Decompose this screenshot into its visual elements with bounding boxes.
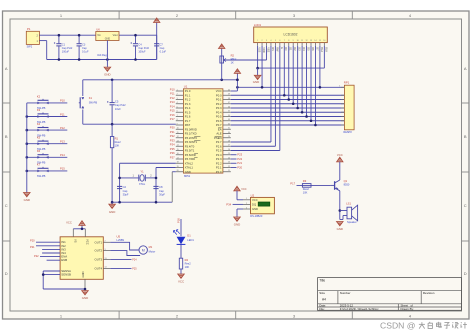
svg-text:VCC: VCC: [337, 153, 343, 157]
svg-text:K6: K6: [37, 149, 41, 153]
svg-text:100uF: 100uF: [138, 50, 146, 54]
svg-text:P0.0: P0.0: [216, 93, 222, 97]
svg-text:P30: P30: [170, 126, 175, 130]
svg-text:26: 26: [228, 149, 230, 151]
svg-text:P23: P23: [237, 153, 242, 157]
svg-text:30: 30: [228, 132, 230, 134]
svg-text:4: 4: [177, 102, 178, 104]
svg-text:2: 2: [246, 203, 247, 205]
svg-text:P14: P14: [60, 153, 65, 157]
svg-text:10K: 10K: [303, 191, 308, 195]
svg-text:OUT3: OUT3: [95, 258, 103, 262]
svg-text:Cap: Cap: [82, 46, 87, 50]
svg-text:9: 9: [177, 123, 178, 125]
svg-text:DQ: DQ: [252, 203, 256, 207]
svg-text:Res2: Res2: [115, 140, 122, 144]
svg-text:P13: P13: [170, 100, 175, 104]
svg-text:13: 13: [310, 40, 312, 42]
svg-text:D1: D1: [187, 234, 191, 238]
svg-text:VCC: VCC: [178, 279, 184, 283]
svg-text:C1: C1: [62, 43, 66, 47]
svg-text:RPot: RPot: [231, 57, 237, 61]
svg-text:P3.6/WR: P3.6/WR: [185, 153, 196, 157]
svg-text:34: 34: [228, 115, 230, 117]
svg-text:OUT2: OUT2: [95, 249, 103, 253]
svg-text:F:\2i-2:2023\..\Sheet1.SchDoc: F:\2i-2:2023\..\Sheet1.SchDoc: [340, 307, 379, 311]
svg-text:P36: P36: [170, 151, 175, 155]
svg-text:K2: K2: [37, 95, 41, 99]
svg-text:D: D: [5, 271, 8, 276]
svg-text:P20: P20: [30, 238, 35, 242]
svg-text:P2.1: P2.1: [216, 166, 222, 170]
svg-text:P20: P20: [237, 165, 242, 169]
svg-text:12: 12: [305, 40, 307, 42]
svg-text:CSDN @: CSDN @: [380, 320, 415, 330]
svg-text:10K: 10K: [185, 265, 190, 269]
svg-text:SIP2: SIP2: [27, 45, 33, 49]
svg-text:Drawn By:: Drawn By:: [401, 307, 415, 311]
svg-text:18: 18: [177, 162, 179, 164]
svg-text:7: 7: [177, 115, 178, 117]
svg-text:Revision: Revision: [423, 291, 435, 295]
svg-text:8550: 8550: [344, 183, 350, 187]
svg-text:P34: P34: [170, 143, 175, 147]
svg-text:C7: C7: [160, 43, 164, 47]
svg-text:8051: 8051: [184, 174, 191, 178]
svg-text:GND: GND: [104, 72, 110, 76]
svg-text:P3.1/TXD: P3.1/TXD: [185, 132, 197, 136]
svg-text:P2.4: P2.4: [216, 153, 222, 157]
svg-text:OUT4: OUT4: [95, 266, 103, 270]
svg-text:RST: RST: [185, 123, 191, 127]
svg-text:36: 36: [228, 106, 230, 108]
svg-text:13: 13: [105, 258, 107, 260]
svg-text:Res2: Res2: [303, 187, 310, 191]
svg-text:37: 37: [228, 102, 230, 104]
svg-text:Res2: Res2: [185, 261, 192, 265]
svg-text:15: 15: [177, 149, 179, 151]
svg-text:14: 14: [314, 40, 316, 42]
svg-text:LS1: LS1: [346, 202, 351, 206]
svg-text:R3: R3: [303, 179, 307, 183]
svg-text:P1.7: P1.7: [185, 119, 191, 123]
svg-text:P10: P10: [170, 87, 175, 91]
svg-text:P12: P12: [170, 96, 175, 100]
svg-text:P11: P11: [170, 92, 175, 96]
svg-text:12: 12: [177, 136, 179, 138]
svg-text:Size: Size: [319, 291, 325, 295]
svg-text:P21: P21: [237, 161, 242, 165]
svg-text:19: 19: [177, 166, 179, 168]
svg-text:39: 39: [228, 94, 230, 96]
svg-text:M1: M1: [149, 245, 153, 249]
svg-text:P0.6: P0.6: [216, 119, 222, 123]
svg-text:GND: GND: [81, 271, 85, 277]
svg-text:VCC: VCC: [66, 220, 72, 224]
svg-text:P24: P24: [132, 259, 137, 262]
svg-text:B: B: [5, 134, 8, 139]
svg-text:16: 16: [177, 153, 179, 155]
svg-text:Q1: Q1: [344, 179, 348, 183]
svg-text:3: 3: [177, 98, 178, 100]
svg-text:K1: K1: [89, 96, 93, 100]
svg-text:ENB: ENB: [61, 258, 67, 262]
svg-text:23: 23: [228, 162, 230, 164]
svg-text:Vout: Vout: [113, 34, 118, 37]
svg-text:P16: P16: [177, 218, 181, 223]
svg-text:U6: U6: [96, 27, 100, 31]
svg-text:XTAL1: XTAL1: [185, 166, 194, 170]
svg-text:C5: C5: [115, 100, 119, 104]
svg-text:P37: P37: [170, 155, 175, 159]
svg-text:17: 17: [177, 157, 179, 159]
svg-text:U2: U2: [251, 193, 255, 197]
svg-text:9: 9: [293, 40, 294, 42]
svg-text:SW-PB: SW-PB: [89, 101, 98, 105]
svg-text:P1.4: P1.4: [185, 106, 191, 110]
svg-text:GND: GND: [234, 223, 240, 227]
svg-text:8: 8: [177, 119, 178, 121]
svg-text:6: 6: [279, 40, 280, 42]
svg-text:GND: GND: [24, 198, 30, 202]
svg-text:6: 6: [177, 111, 178, 113]
svg-text:5: 5: [275, 40, 276, 42]
svg-text:P3.7/RD: P3.7/RD: [185, 157, 195, 161]
svg-text:P0.3: P0.3: [216, 106, 222, 110]
svg-text:VCC: VCC: [252, 198, 258, 202]
svg-text:P1.0: P1.0: [185, 89, 191, 93]
svg-text:GND: GND: [82, 296, 88, 300]
svg-text:P10: P10: [60, 99, 65, 103]
svg-text:P31: P31: [170, 130, 175, 134]
svg-text:P25: P25: [132, 267, 137, 270]
svg-text:Volt Reg: Volt Reg: [97, 53, 107, 57]
svg-text:3: 3: [105, 249, 106, 251]
svg-text:ALE: ALE: [216, 132, 221, 136]
svg-text:25: 25: [228, 153, 230, 155]
svg-text:Cap: Cap: [160, 46, 165, 50]
svg-text:21: 21: [228, 170, 230, 172]
svg-text:3: 3: [246, 207, 247, 209]
svg-text:0.1uF: 0.1uF: [160, 50, 167, 54]
svg-text:P0.1: P0.1: [216, 98, 222, 102]
svg-text:14: 14: [105, 267, 107, 269]
svg-text:11: 11: [177, 132, 179, 134]
svg-text:P14: P14: [170, 104, 175, 108]
svg-text:D: D: [464, 271, 467, 276]
svg-text:VCC: VCC: [85, 239, 89, 245]
svg-text:VCC: VCC: [216, 89, 222, 93]
svg-text:20: 20: [177, 170, 179, 172]
svg-text:P0.2: P0.2: [216, 102, 222, 106]
svg-text:P21: P21: [30, 245, 35, 249]
svg-text:29: 29: [228, 136, 230, 138]
svg-text:10uF: 10uF: [115, 107, 121, 111]
svg-text:K3: K3: [37, 108, 41, 112]
svg-text:P1.5: P1.5: [185, 110, 191, 114]
svg-text:P3.0/RXD: P3.0/RXD: [185, 127, 197, 131]
svg-text:0.1uF: 0.1uF: [82, 50, 89, 54]
svg-text:B: B: [464, 134, 467, 139]
svg-text:P15: P15: [60, 167, 65, 171]
svg-text:1: 1: [177, 89, 178, 91]
svg-text:C4: C4: [138, 43, 142, 47]
svg-text:VCC: VCC: [241, 188, 246, 191]
svg-text:Number: Number: [340, 291, 351, 295]
svg-text:GND: GND: [109, 210, 115, 214]
svg-text:File:: File:: [319, 307, 325, 311]
svg-text:R2: R2: [231, 53, 235, 57]
svg-text:Cap Pol2: Cap Pol2: [138, 46, 149, 50]
svg-text:15: 15: [319, 40, 321, 42]
svg-text:DS-18B20: DS-18B20: [250, 214, 263, 218]
svg-text:10: 10: [297, 40, 299, 42]
svg-text:K5: K5: [37, 135, 41, 139]
svg-text:R1: R1: [115, 136, 119, 140]
svg-text:Cap Pol2: Cap Pol2: [115, 103, 126, 107]
svg-text:2: 2: [262, 40, 263, 42]
svg-text:16: 16: [323, 40, 325, 42]
svg-text:GND: GND: [337, 227, 343, 231]
svg-text:28: 28: [228, 140, 230, 142]
svg-text:10: 10: [177, 128, 179, 130]
svg-text:5: 5: [177, 106, 178, 108]
svg-text:C: C: [464, 203, 467, 208]
svg-text:14: 14: [177, 145, 179, 147]
svg-text:22: 22: [228, 166, 230, 168]
svg-text:Cap: Cap: [123, 189, 128, 193]
svg-text:C: C: [5, 203, 8, 208]
svg-text:P2.6: P2.6: [216, 144, 222, 148]
svg-text:P0.5: P0.5: [216, 115, 222, 119]
svg-text:1K: 1K: [231, 61, 234, 65]
svg-text:OUT1: OUT1: [95, 240, 103, 244]
svg-text:RESP8: RESP8: [343, 131, 352, 134]
svg-text:24: 24: [228, 157, 230, 159]
svg-text:33: 33: [228, 119, 230, 121]
svg-text:A4: A4: [322, 298, 326, 302]
svg-text:P1.1: P1.1: [185, 93, 191, 97]
svg-text:C8: C8: [159, 185, 163, 189]
svg-text:P33: P33: [170, 138, 175, 142]
svg-text:2: 2: [177, 94, 178, 96]
svg-text:P1.2: P1.2: [185, 98, 191, 102]
svg-text:Cap: Cap: [159, 189, 164, 193]
svg-text:P15: P15: [170, 109, 175, 113]
svg-text:30pF: 30pF: [123, 192, 129, 196]
svg-text:GND: GND: [253, 80, 259, 84]
svg-text:P13: P13: [60, 140, 65, 144]
svg-text:U5: U5: [117, 234, 121, 238]
svg-text:P1.6: P1.6: [185, 115, 191, 119]
svg-text:4: 4: [270, 40, 271, 42]
svg-text:P0.4: P0.4: [216, 110, 222, 114]
svg-text:30pF: 30pF: [159, 192, 165, 196]
svg-text:P17: P17: [290, 181, 295, 185]
svg-text:Title: Title: [319, 279, 325, 283]
svg-text:Cap Pol2: Cap Pol2: [62, 46, 73, 50]
svg-text:P11: P11: [60, 112, 65, 116]
svg-text:RP1: RP1: [344, 80, 350, 84]
svg-text:P32: P32: [170, 134, 175, 138]
svg-text:K7: K7: [37, 163, 41, 167]
svg-text:LCD1602: LCD1602: [284, 32, 298, 36]
svg-text:1: 1: [246, 198, 247, 200]
svg-text:32: 32: [228, 123, 230, 125]
svg-text:P1: P1: [27, 27, 31, 31]
svg-text:2: 2: [105, 241, 106, 243]
svg-text:P17: P17: [170, 117, 175, 121]
svg-text:LCD1: LCD1: [254, 23, 262, 27]
svg-text:GND: GND: [185, 170, 191, 174]
svg-text:P12: P12: [60, 126, 65, 130]
svg-text:3: 3: [266, 40, 267, 42]
svg-text:P2.5: P2.5: [216, 149, 222, 153]
svg-text:R4: R4: [185, 258, 189, 262]
svg-text:35: 35: [228, 111, 230, 113]
svg-text:27: 27: [228, 145, 230, 147]
svg-text:P2.2: P2.2: [216, 161, 222, 165]
svg-text:A: A: [464, 66, 467, 71]
svg-text:1: 1: [257, 40, 258, 42]
svg-text:10K: 10K: [115, 144, 120, 148]
svg-text:8: 8: [288, 40, 289, 42]
svg-text:VS: VS: [73, 239, 77, 243]
svg-text:L298N: L298N: [117, 238, 125, 242]
svg-text:38: 38: [228, 98, 230, 100]
svg-text:7: 7: [284, 40, 285, 42]
svg-text:P34: P34: [226, 202, 231, 206]
svg-text:K4: K4: [37, 122, 41, 126]
svg-text:Speaker: Speaker: [347, 220, 357, 224]
svg-text:C3: C3: [82, 43, 86, 47]
svg-text:P0.7: P0.7: [216, 123, 222, 127]
svg-text:P1.3: P1.3: [185, 102, 191, 106]
svg-text:P3.5/T1: P3.5/T1: [185, 149, 195, 153]
svg-text:GND: GND: [252, 207, 258, 211]
svg-text:SW-PB: SW-PB: [37, 174, 46, 178]
svg-text:100uF: 100uF: [62, 50, 70, 54]
svg-text:P2.7: P2.7: [216, 140, 222, 144]
svg-text:XTAL: XTAL: [139, 182, 146, 186]
svg-text:Vin: Vin: [97, 34, 101, 37]
svg-text:P2.3: P2.3: [216, 157, 222, 161]
svg-text:A: A: [5, 66, 8, 71]
svg-text:GND: GND: [105, 38, 111, 41]
svg-text:13: 13: [177, 140, 179, 142]
svg-text:P3.4/T0: P3.4/T0: [185, 144, 195, 148]
svg-text:SENSB: SENSB: [61, 273, 71, 277]
svg-text:U1: U1: [184, 85, 188, 89]
svg-text:31: 31: [228, 128, 230, 130]
svg-text:P22: P22: [237, 157, 242, 161]
svg-text:P22: P22: [34, 254, 39, 258]
svg-text:LED1: LED1: [187, 238, 194, 242]
svg-text:40: 40: [228, 89, 230, 91]
svg-text:C2: C2: [123, 185, 127, 189]
svg-text:M: M: [142, 249, 145, 253]
svg-text:11: 11: [301, 40, 303, 42]
svg-text:XTAL2: XTAL2: [185, 161, 194, 165]
svg-text:P35: P35: [170, 147, 175, 151]
svg-text:P16: P16: [170, 113, 175, 117]
svg-text:Y1: Y1: [140, 170, 144, 174]
svg-text:Motor: Motor: [149, 249, 156, 253]
svg-text:P2.0: P2.0: [216, 170, 222, 174]
